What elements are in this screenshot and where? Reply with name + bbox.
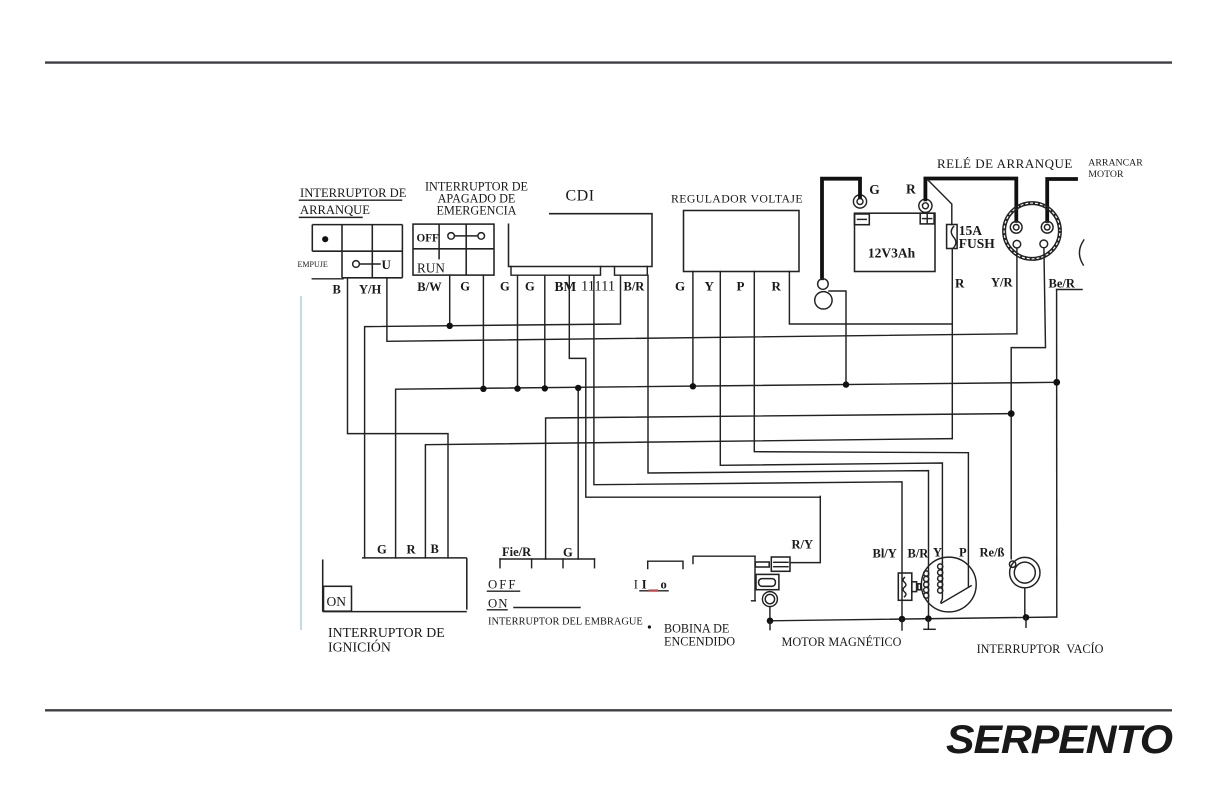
magneto pickup component box (898, 573, 921, 600)
svg-text:INTERRUPTOR DE: INTERRUPTOR DE (328, 625, 445, 640)
ignition switch SW3 connector box (323, 558, 467, 612)
wire P regulator to magneto (754, 272, 968, 587)
label: BOBINA DE ENCENDIDO title (664, 621, 735, 648)
node junction G kill switch (480, 386, 486, 392)
magneto M1 (MOTOR MAGNETICO) circle (921, 557, 976, 612)
wire G clutch switch from bus down (577, 388, 579, 559)
wire Y regulator to magneto (720, 272, 942, 563)
svg-text:G: G (500, 280, 510, 294)
svg-text:B/W: B/W (417, 280, 442, 294)
kill switch contact symbol (448, 233, 485, 240)
svg-text:U: U (382, 257, 392, 272)
node junction vacuum switch ground (1023, 614, 1030, 621)
svg-text:ENCENDIDO: ENCENDIDO (664, 634, 735, 648)
svg-text:OFF: OFF (417, 233, 440, 245)
node junction B/W on kill line (447, 323, 453, 329)
top horizontal rule (45, 61, 1172, 63)
ground stub B/R with bar (924, 619, 935, 630)
thick relay output wire to starter motor (1047, 179, 1076, 221)
ignition coil connector bracket 2 (693, 556, 755, 563)
node junction Fie/R line on vacuum wire (1008, 410, 1015, 417)
wire CDI B/R-right down to magneto B/R (648, 275, 929, 618)
label: ARRANCAR MOTOR (1088, 157, 1143, 180)
wire R regulator to fuse wire (789, 272, 952, 325)
svg-text:Y/H: Y/H (359, 283, 382, 297)
CDI connector strip left (511, 267, 601, 276)
wire G1 from CDI down to bus (517, 275, 519, 388)
node junction BM CDI (542, 385, 548, 391)
node junction G regulator (690, 383, 696, 389)
wire from ring terminal to ground bus (829, 291, 846, 385)
voltage regulator U2 box (684, 211, 800, 272)
ground line bottom (770, 617, 1057, 621)
svg-text:RELÉ DE ARRANQUE: RELÉ DE ARRANQUE (937, 156, 1073, 171)
svg-text:R: R (955, 276, 965, 291)
svg-text:ON: ON (488, 596, 508, 610)
start switch indicator dot (322, 236, 328, 242)
vacuum switch SW5 body (1009, 557, 1040, 587)
node junction ground bus / Be/R (1053, 379, 1060, 386)
svg-text:B: B (431, 542, 439, 556)
kill switch SW2 table (413, 224, 494, 275)
svg-text:ARRANCAR: ARRANCAR (1088, 157, 1143, 168)
svg-text:G: G (675, 279, 685, 294)
faint scan line (cyan) left margin (300, 296, 302, 630)
svg-text:ON: ON (327, 594, 347, 609)
node junction coil ground (767, 618, 774, 625)
wire G from kill switch down to bus (482, 275, 484, 389)
svg-text:RUN: RUN (417, 261, 445, 276)
wire R/Y from CDI feed down into coil (791, 496, 821, 562)
battery plus terminal nut (919, 199, 932, 212)
stray arc mark (1079, 240, 1083, 265)
magneto coil winding on B/R wire (924, 571, 929, 598)
node junction Bl/Y ground (899, 616, 906, 623)
label: INTERRUPTOR DE ARRANQUE (start switch title) (300, 186, 407, 218)
battery minus terminal nut (853, 195, 866, 208)
svg-text:Fie/R: Fie/R (502, 545, 532, 559)
ground stub coil (769, 621, 771, 630)
magneto pickup diagonal (941, 562, 971, 603)
svg-text:G: G (377, 543, 387, 557)
svg-text:Y/R: Y/R (991, 276, 1014, 290)
bottom horizontal rule (45, 709, 1172, 711)
svg-text:I: I (634, 577, 638, 591)
svg-text:FUSH: FUSH (959, 236, 996, 251)
label OFF (clutch state) (488, 578, 520, 592)
svg-text:B/R: B/R (624, 280, 646, 294)
wire vacuum switch to ground line (1024, 588, 1026, 617)
magneto coil winding on Y wire (938, 564, 943, 593)
svg-text:G: G (869, 182, 880, 197)
svg-text:I: I (642, 577, 647, 591)
wire B/W from kill switch down to junction (449, 275, 451, 326)
wire R from fuse down (951, 249, 953, 439)
svg-text:B/R: B/R (908, 547, 930, 561)
relay big pin right (1041, 221, 1053, 233)
ignition coil T1 assembly (752, 556, 790, 606)
battery BT1 12V3Ah (855, 213, 936, 271)
ignition ON cell (324, 586, 352, 611)
CDI connector strip right (615, 267, 648, 276)
relay small pin left (1013, 240, 1021, 248)
ground stub vacuum switch (1025, 617, 1027, 627)
svg-text:BM: BM (555, 279, 577, 294)
node junction G clutch (575, 385, 581, 391)
wire G regulator down to bus (692, 272, 694, 387)
ground stub Bl/Y (901, 619, 903, 630)
svg-text:Y: Y (933, 546, 942, 560)
start switch SW1 table (312, 225, 402, 279)
wire ground bus G: ignition R slot up, right to Be/R wire (396, 382, 1057, 558)
ignition coil connector bracket 1 (648, 561, 683, 568)
svg-text:Y: Y (705, 279, 715, 294)
svg-text:MOTOR MAGNÉTICO: MOTOR MAGNÉTICO (782, 635, 902, 649)
relay big pin left (1010, 221, 1022, 233)
wire CDI pin4 down to magneto Bl/Y (594, 275, 902, 619)
fuse element squiggle (951, 227, 956, 248)
svg-text:P: P (959, 546, 967, 560)
svg-text:Bl/Y: Bl/Y (873, 547, 897, 561)
svg-text:REGULADOR VOLTAJE: REGULADOR VOLTAJE (671, 192, 803, 206)
svg-text:G: G (525, 280, 535, 294)
wire coil to ground line (769, 607, 771, 621)
wire Fie/R: clutch switch up, long line right to vacuum wire (546, 414, 1012, 559)
wire BM from CDI down to bus (544, 275, 546, 388)
wire Y/H to Y/R long line (387, 278, 1017, 342)
label I I _ o (coil symbol) (634, 577, 668, 591)
svg-text:Be/R: Be/R (1049, 277, 1076, 291)
svg-text:EMPUJE: EMPUJE (298, 260, 328, 269)
wire Be/R branch top segment (1057, 289, 1082, 291)
wire Be/R branch vertical down to ground line (1056, 290, 1058, 618)
svg-text:BOBINA DE: BOBINA DE (664, 621, 729, 635)
svg-text:P: P (737, 279, 745, 294)
node junction G1 CDI (514, 385, 520, 391)
CDI unit U1 box (509, 214, 653, 267)
svg-text:B: B (333, 283, 341, 297)
svg-text:INTERRUPTOR DEL EMBRAGUE: INTERRUPTOR DEL EMBRAGUE (488, 616, 643, 627)
relay small pin right (1040, 240, 1048, 248)
svg-text:12V3Ah: 12V3Ah (868, 246, 916, 261)
wire R main: ignition R up, long line right to fuse wire (425, 439, 952, 558)
label ON (clutch state) (488, 596, 581, 610)
svg-text:R/Y: R/Y (792, 538, 814, 552)
svg-text:R: R (906, 182, 916, 197)
wire Be/R: relay small pin right down, jog left, down to vacuum switch (1011, 248, 1045, 559)
thick battery plus wire to relay (925, 179, 1016, 221)
svg-text:EMERGENCIA: EMERGENCIA (437, 204, 517, 218)
svg-text:11111: 11111 (581, 279, 615, 295)
svg-text:CDI: CDI (566, 188, 595, 205)
svg-text:OFF: OFF (488, 578, 517, 592)
svg-text:IGNICIÓN: IGNICIÓN (328, 638, 391, 654)
svg-text:o: o (661, 577, 667, 591)
svg-text:Re/ß: Re/ß (980, 546, 1005, 560)
wire B: start switch down, right, down to ignition switch (348, 278, 449, 558)
svg-text:MOTOR: MOTOR (1088, 169, 1124, 180)
svg-text:ARRANQUE: ARRANQUE (300, 203, 370, 217)
bullet mark (648, 625, 651, 628)
node junction B/R ground (925, 615, 932, 622)
svg-text:INTERRUPTOR VACÍO: INTERRUPTOR VACÍO (977, 642, 1104, 656)
thick battery ground strap wire (822, 179, 860, 279)
wire kill-circuit line: ignition G up, right to CDI B/R pin (365, 275, 621, 558)
ground strap ring terminal large (815, 292, 832, 309)
wire battery plus to fuse (diagonal) (928, 180, 952, 225)
svg-text:R: R (772, 279, 782, 294)
svg-text:INTERRUPTOR DE: INTERRUPTOR DE (300, 186, 407, 200)
start switch contact symbol (353, 257, 392, 272)
wire Y/R: relay small pin left down to Y/H line (1016, 248, 1018, 334)
ground strap ring terminal small (818, 279, 829, 290)
svg-text:R: R (407, 543, 417, 557)
label: INTERRUPTOR DE IGNICION title (328, 625, 445, 655)
label: INTERRUPTOR DE APAGADO DE EMERGENCIA (kill switch title) (425, 180, 528, 218)
starter relay K1 body (1003, 202, 1061, 260)
svg-text:SERPENTO: SERPENTO (946, 718, 1173, 762)
svg-text:G: G (460, 280, 470, 294)
node junction battery ground strap on bus (843, 381, 849, 387)
clutch switch SW4 connector (500, 559, 595, 568)
wire CDI pin3 jog down to ignition coil feed (569, 275, 820, 497)
svg-text:G: G (563, 546, 573, 560)
fuse F1 body (947, 225, 958, 249)
